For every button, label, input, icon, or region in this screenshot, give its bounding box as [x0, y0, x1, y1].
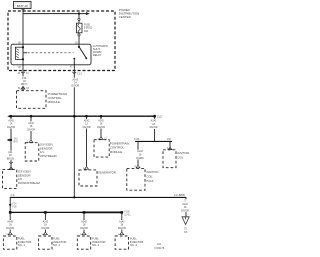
wire rail link left — [9, 197, 11, 212]
wire down x154 — [154, 116, 156, 141]
svg-text:DG/BK: DG/BK — [136, 157, 144, 160]
svg-text:UPSTREAM: UPSTREAM — [40, 154, 57, 158]
label automatic shut down relay — [93, 44, 109, 57]
splice bar — [135, 140, 172, 142]
svg-text:COIL: COIL — [146, 174, 153, 178]
wire down x11 — [10, 116, 12, 169]
svg-text:DG/OR: DG/OR — [27, 128, 35, 131]
node BATT A0 feed box — [14, 2, 32, 9]
branch PCM C1 — [94, 116, 129, 157]
fuel injector no 4 — [115, 212, 143, 249]
wire relay pin 87 down to bus A142 — [73, 64, 75, 198]
fuel injector no 3 — [77, 212, 105, 249]
powertrain control module box left — [17, 91, 47, 109]
junction dots on injector bus — [9, 211, 12, 214]
wire top feed horizontal — [23, 13, 87, 15]
svg-text:BK/LB: BK/LB — [7, 157, 14, 160]
battery terminal connector — [22, 9, 25, 10]
branch oxygen sensor downstream — [3, 116, 41, 188]
relay ASD box — [11, 44, 91, 65]
svg-text:9 (PDC): 9 (PDC) — [84, 28, 93, 30]
fuel injector no 1 — [3, 212, 31, 249]
svg-text:B76: B76 — [14, 141, 19, 143]
pin 51 connector C3 arrow into PCM — [18, 86, 30, 90]
svg-text:30A: 30A — [84, 30, 89, 33]
label powertrain control module — [48, 92, 68, 104]
splice S112 end dot — [153, 115, 156, 118]
branch off-page right — [180, 197, 190, 234]
wire label A142 14 DG/OR — [70, 78, 80, 88]
svg-text:DG/OR: DG/OR — [80, 227, 88, 230]
svg-text:DG/OR: DG/OR — [97, 126, 105, 129]
svg-text:CENTER: CENTER — [119, 15, 131, 19]
svg-text:2.4L: 2.4L — [10, 195, 15, 197]
svg-text:MODULE: MODULE — [110, 150, 122, 154]
wire down x86.5 — [86, 116, 88, 166]
svg-text:FUSE: FUSE — [84, 25, 91, 27]
relay coil — [15, 44, 24, 65]
ignition coil box — [163, 150, 176, 168]
junction dots on bus — [10, 115, 13, 118]
svg-text:DOWNSTREAM: DOWNSTREAM — [18, 181, 41, 185]
svg-text:S112: S112 — [157, 115, 163, 118]
wire BATT down to relay pin 86 — [22, 9, 24, 45]
svg-text:NO. 2: NO. 2 — [53, 243, 61, 247]
bus A142 main splice rail — [10, 115, 155, 117]
relay switch — [73, 44, 87, 65]
svg-text:DB/YL: DB/YL — [21, 83, 29, 86]
svg-text:DG/OR: DG/OR — [41, 227, 49, 230]
svg-text:NO. 1: NO. 1 — [18, 243, 26, 247]
svg-text:PACK: PACK — [146, 179, 153, 183]
wire down x101 — [100, 116, 102, 137]
rail injector bus — [10, 211, 122, 213]
fuel injector no 2 — [39, 212, 67, 249]
splice S141 — [10, 139, 12, 141]
svg-text:IGNITION: IGNITION — [146, 170, 158, 174]
svg-text:C13: C13 — [77, 73, 82, 75]
branch oxygen sensor upstream — [25, 116, 57, 161]
svg-text:DG/OR: DG/OR — [7, 126, 15, 129]
svg-text:F100: F100 — [124, 211, 130, 213]
powertrain control module box right — [94, 140, 109, 157]
svg-text:NO. 3: NO. 3 — [92, 243, 100, 247]
svg-text:S41: S41 — [14, 138, 19, 140]
svg-text:14 LB/BR: 14 LB/BR — [174, 194, 185, 197]
svg-text:RELAY: RELAY — [93, 53, 102, 57]
generator box — [79, 170, 97, 186]
svg-text:MODULE: MODULE — [48, 100, 60, 104]
wire label F42 18 DB/YL — [20, 76, 29, 86]
wire label F41 18 BK — [5, 151, 15, 160]
svg-text:TO: TO — [184, 229, 187, 231]
svg-text:DG/OR: DG/OR — [6, 227, 14, 230]
svg-text:DG/OR: DG/OR — [118, 227, 126, 230]
svg-text:(2.4L): (2.4L) — [124, 215, 130, 217]
connector C1 inline — [18, 72, 30, 75]
relay actuation dashed link — [24, 52, 74, 54]
connector inline — [9, 162, 13, 163]
svg-text:DG/OR: DG/OR — [71, 85, 79, 88]
svg-text:NO. 4: NO. 4 — [130, 243, 138, 247]
splice dot link — [9, 204, 11, 206]
oxygen sensor 1/2 downstream box — [3, 170, 17, 189]
bus left continuation arrow — [7, 115, 11, 118]
branch generator — [79, 116, 116, 186]
svg-text:F138: F138 — [134, 139, 140, 141]
label fuse — [84, 25, 93, 33]
rail injector feed — [10, 196, 186, 198]
junction dot fuse feed — [78, 12, 80, 14]
ignition coil pack box — [127, 168, 145, 190]
wire label A142 14 DG/OR — [6, 119, 17, 128]
continuation arrow right — [86, 12, 90, 15]
oxygen sensor 1/1 upstream box — [25, 143, 39, 161]
pin 2 arrow into sensor — [9, 167, 13, 170]
svg-text:IGNITION: IGNITION — [177, 151, 189, 155]
wire relay pin 85 to PCM — [22, 64, 24, 91]
svg-text:8 96317B: 8 96317B — [154, 248, 164, 250]
branch ignition coils — [127, 116, 189, 190]
svg-text:DG/OR: DG/OR — [150, 126, 158, 129]
wire ignition coil — [169, 141, 171, 149]
svg-text:DG/OR: DG/OR — [83, 126, 91, 129]
power distribution center dashed box — [8, 11, 115, 71]
label power distribution center — [119, 8, 139, 19]
svg-text:A0A: A0A — [157, 243, 162, 246]
svg-text:DG/OR: DG/OR — [181, 209, 189, 212]
end splice F100 — [121, 211, 124, 214]
svg-text:GENERATOR: GENERATOR — [98, 171, 116, 175]
off page arrow — [182, 217, 189, 225]
svg-text:COIL: COIL — [177, 155, 184, 159]
connector C13 inline — [73, 72, 83, 75]
junction relay wire on rail — [73, 196, 75, 198]
wire ignition coil pack — [137, 141, 139, 165]
wire down x31 — [30, 116, 32, 139]
svg-text:BATT A0: BATT A0 — [17, 4, 28, 8]
fuse F9 — [76, 14, 82, 44]
